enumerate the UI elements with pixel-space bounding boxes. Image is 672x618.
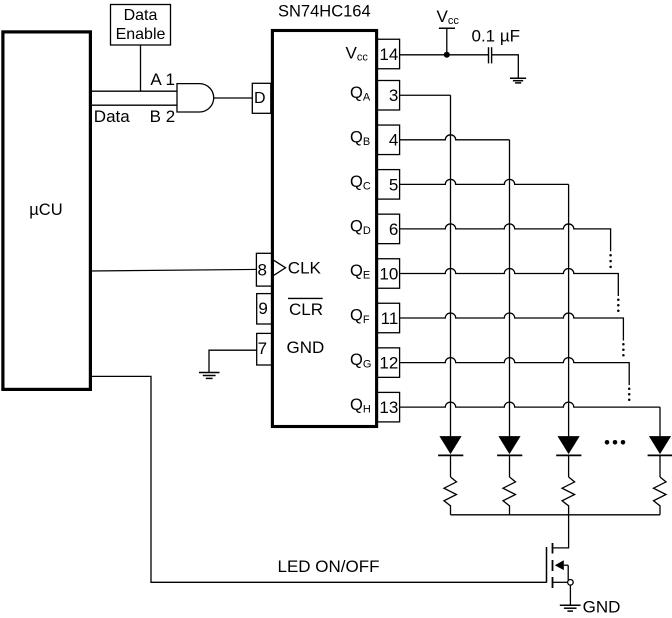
svg-text:D: D bbox=[254, 90, 266, 107]
LED D2 bbox=[497, 437, 522, 477]
svg-text:Data: Data bbox=[124, 7, 158, 24]
svg-text:Enable: Enable bbox=[116, 26, 166, 43]
LED D4 bbox=[648, 437, 672, 477]
svg-text:6: 6 bbox=[389, 220, 398, 239]
wire A (uCU to AND gate) bbox=[90, 90, 178, 92]
row wire QF with hops and dotted stub bbox=[400, 313, 625, 356]
capacitor C1 0.1 uF bbox=[472, 27, 521, 64]
ground at pin 7 bbox=[199, 350, 257, 378]
wire B / Data (uCU to AND gate) bbox=[90, 104, 178, 106]
svg-text:GND: GND bbox=[583, 598, 621, 617]
svg-text:CLK: CLK bbox=[288, 259, 322, 278]
resistor R3 bbox=[562, 477, 575, 515]
Vcc power symbol bbox=[437, 7, 460, 55]
svg-text:11: 11 bbox=[381, 309, 399, 328]
wire capacitor to ground bbox=[492, 55, 519, 79]
svg-text:4: 4 bbox=[389, 131, 398, 150]
wire uCU to LED ON/OFF to gate bbox=[90, 376, 547, 582]
AND gate U2 bbox=[177, 84, 214, 112]
svg-text:10: 10 bbox=[379, 264, 398, 283]
row wire QH with hops bbox=[400, 402, 660, 407]
pin D box bbox=[252, 83, 270, 113]
pin 6 box bbox=[377, 214, 399, 244]
svg-text:GND: GND bbox=[287, 338, 325, 357]
svg-text:12: 12 bbox=[379, 354, 398, 373]
ground at MOSFET source bbox=[560, 605, 581, 611]
microcontroller uCU block bbox=[3, 32, 91, 390]
clock wire uCU to pin 8 bbox=[90, 269, 256, 271]
CLK input triangle bbox=[273, 260, 285, 276]
Data Enable box bbox=[111, 5, 171, 46]
wire source to ground bbox=[569, 585, 571, 605]
column wire 2 bbox=[509, 140, 511, 437]
pin 14 box bbox=[377, 39, 399, 69]
svg-text:LED ON/OFF: LED ON/OFF bbox=[278, 557, 380, 576]
svg-text:B 2: B 2 bbox=[150, 107, 176, 126]
svg-text:5: 5 bbox=[389, 175, 398, 194]
pin 8 box bbox=[256, 253, 272, 286]
svg-text:9: 9 bbox=[258, 299, 267, 318]
ground at capacitor bbox=[510, 78, 526, 83]
shift register U1 SN74HC164 body bbox=[272, 3, 376, 427]
junction dot Vcc node bbox=[444, 52, 450, 58]
pin 10 box bbox=[377, 259, 399, 289]
resistor R1 bbox=[444, 477, 457, 515]
pin 12 box bbox=[377, 348, 399, 378]
row wire QG with hops and dotted stub bbox=[400, 358, 630, 401]
column wire 3 bbox=[568, 184, 570, 436]
resistor R4 bbox=[654, 477, 667, 515]
pin 4 box bbox=[377, 125, 399, 155]
pin 9 box bbox=[257, 294, 272, 324]
pin 11 box bbox=[377, 303, 399, 333]
ellipsis dots between LED columns bbox=[605, 440, 626, 445]
row wire QA bbox=[400, 94, 451, 96]
row wire QD with hops and dotted stub bbox=[400, 224, 612, 268]
wire rail to MOSFET drain bbox=[553, 515, 568, 548]
bottom rail wire bbox=[451, 514, 661, 516]
svg-text:Data: Data bbox=[94, 107, 130, 126]
pin 7 box bbox=[257, 333, 272, 365]
svg-text:3: 3 bbox=[389, 86, 398, 105]
svg-text:µCU: µCU bbox=[29, 201, 62, 219]
wire pin 14 to capacitor bbox=[400, 54, 488, 56]
pin 13 box bbox=[377, 392, 399, 422]
svg-text:13: 13 bbox=[379, 398, 398, 417]
label CLR with overline bbox=[288, 298, 323, 318]
column wire 4 bbox=[659, 407, 661, 437]
pin 3 box bbox=[377, 81, 399, 111]
LED D3 bbox=[556, 437, 581, 477]
pin 5 box bbox=[377, 170, 399, 200]
wire Data Enable to A input bbox=[140, 45, 142, 91]
MOSFET Q1 bbox=[547, 543, 574, 588]
resistor R2 bbox=[503, 477, 516, 515]
row wire QE with hops and dotted stub bbox=[400, 269, 620, 313]
svg-text:SN74HC164: SN74HC164 bbox=[278, 3, 371, 21]
row wire QC with hops bbox=[400, 179, 569, 184]
svg-text:14: 14 bbox=[379, 45, 398, 64]
svg-text:7: 7 bbox=[258, 339, 267, 358]
svg-text:0.1 µF: 0.1 µF bbox=[472, 27, 521, 46]
wire AND output to D pin bbox=[214, 97, 253, 99]
svg-text:8: 8 bbox=[258, 261, 267, 280]
row wire QB with hop bbox=[400, 135, 510, 140]
svg-text:CLR: CLR bbox=[289, 300, 323, 319]
LED D1 bbox=[438, 437, 463, 477]
column wire 1 bbox=[450, 95, 452, 437]
svg-text:A 1: A 1 bbox=[150, 70, 175, 89]
